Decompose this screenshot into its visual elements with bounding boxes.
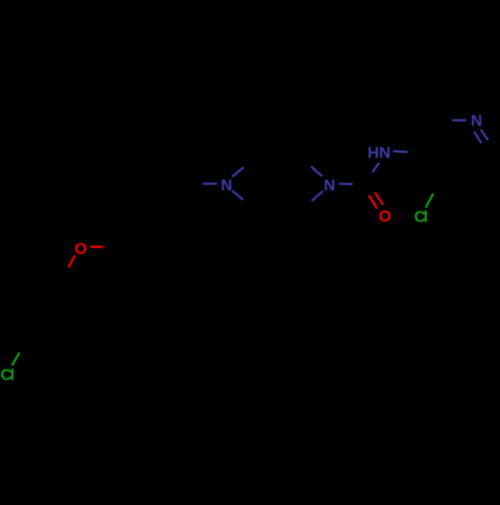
svg-text:N: N (221, 178, 233, 195)
svg-text:O: O (74, 241, 86, 258)
bond pyridine N1 to C6 (left half-bond) (452, 119, 466, 121)
urea C=O double bond, line 2 (O half-bond) (369, 195, 377, 208)
bond spiro-N2 to azetidine CH2 (up-right half-bond) (232, 167, 243, 177)
bond spiro-N2 to chain CH2 (left half-bond) (203, 183, 217, 185)
pyridine N1=C2 double bond, line 2 (N half-bond) (474, 132, 481, 144)
svg-text:l: l (10, 367, 14, 384)
pyridine N1=C2 double bond, line 1 (N half-bond) (481, 130, 488, 141)
bond Cl to chlorophenyl C4 (half-bond) (12, 353, 20, 366)
bond spiro-N6 to azetidine CH2 (down-left half-bond) (312, 191, 323, 201)
urea C=O double bond, line 1 (O half-bond) (375, 192, 383, 205)
svg-text:N: N (471, 113, 483, 130)
bond spiro-N6 to azetidine CH2 (up-left half-bond) (311, 167, 322, 177)
svg-text:HN: HN (367, 145, 390, 162)
bond ether O to chlorophenyl C1 (down-left half-bond) (68, 255, 75, 267)
svg-text:N: N (324, 178, 336, 195)
svg-text:O: O (379, 209, 391, 226)
bond amide HN to pyridine C3 (right half-bond) (393, 150, 408, 153)
bond spiro-N2 to azetidine CH2 (down-right half-bond) (232, 191, 243, 200)
svg-text:l: l (423, 209, 427, 226)
bond ether O to chain CH2 (right half-bond) (90, 246, 103, 249)
bond spiro-N6 to urea carbonyl C (right half-bond) (339, 183, 353, 186)
bond amide HN to urea carbonyl C (down-left half-bond) (373, 163, 380, 173)
bond Cl to pyridine C4 (half-bond) (426, 194, 434, 208)
